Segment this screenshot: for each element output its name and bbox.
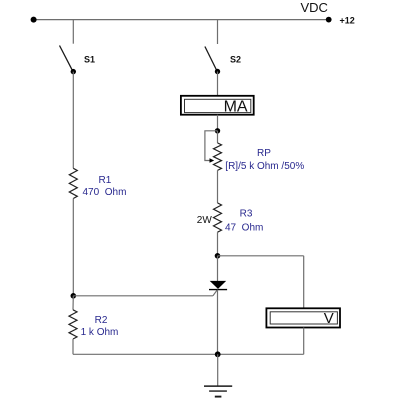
resistor R1 — [69, 168, 77, 198]
resistor R2 — [69, 310, 77, 339]
svg-text:470 Ohm: 470 Ohm — [83, 187, 127, 198]
node pot wiper junction — [215, 128, 220, 133]
wire pot node to RP body — [217, 131, 219, 143]
switch S2 blade — [205, 47, 217, 72]
svg-text:R2: R2 — [95, 315, 108, 326]
resistor R3 — [214, 203, 222, 232]
svg-text:VDC: VDC — [301, 0, 328, 15]
wire R3 to SCR node — [217, 232, 219, 256]
wire middle branch from rail to S2 — [217, 20, 219, 44]
svg-text:RP: RP — [257, 148, 271, 159]
svg-text:+12: +12 — [340, 16, 355, 26]
svg-text:2W: 2W — [197, 215, 213, 226]
wire SCR cathode to bottom rail — [217, 290, 219, 355]
wire voltmeter to bottom rail — [303, 328, 305, 355]
wire milliammeter to pot node — [217, 115, 219, 131]
node SCR anode junction — [215, 253, 221, 259]
svg-text:1 k Ohm: 1 k Ohm — [81, 327, 119, 338]
svg-text:[R]/5 k Ohm /50%: [R]/5 k Ohm /50% — [225, 161, 304, 172]
svg-text:S2: S2 — [230, 55, 241, 65]
svg-text:R3: R3 — [240, 208, 253, 219]
wire top rail VDC — [34, 19, 329, 21]
node S2 bottom contact — [215, 69, 220, 74]
wire gate diagonal to SCR cathode — [213, 290, 218, 296]
meter MA outer box — [181, 96, 254, 115]
svg-text:S1: S1 — [84, 55, 95, 65]
thyristor SCR triangle — [210, 281, 227, 289]
wire junction to right branch — [218, 255, 304, 257]
wire left branch from rail to S1 — [72, 20, 74, 44]
wire right branch down to voltmeter — [303, 256, 305, 308]
wire RP to R3 — [217, 170, 219, 203]
wire gate horizontal — [73, 295, 213, 297]
node left end of VDC rail — [31, 17, 37, 23]
wire S1 to R1 — [72, 72, 74, 169]
switch S1 blade — [60, 46, 73, 72]
svg-text:V: V — [324, 310, 334, 327]
meter V inner box — [270, 312, 337, 324]
wire SCR anode lead — [217, 256, 219, 281]
wire R1 to gate node — [72, 199, 74, 296]
svg-text:47 Ohm: 47 Ohm — [225, 223, 263, 234]
wire ground stem — [217, 354, 219, 386]
node S1 bottom contact — [71, 69, 76, 74]
svg-text:MA: MA — [224, 99, 248, 116]
node ground junction — [215, 351, 221, 357]
potentiometer RP — [214, 143, 222, 171]
svg-text:R1: R1 — [99, 175, 112, 186]
wire bottom rail — [73, 353, 304, 355]
meter V outer box — [266, 308, 340, 327]
potentiometer RP wiper arrow — [210, 158, 215, 163]
wire node A to R2 — [72, 296, 74, 310]
ground — [204, 386, 232, 397]
wire pot wiper hook — [205, 131, 218, 161]
node A junction R1/R2/gate — [71, 293, 77, 299]
thyristor SCR cathode bar — [209, 289, 227, 291]
wire R2 to bottom rail — [72, 339, 74, 354]
node +12 terminal — [326, 17, 332, 23]
meter MA inner box — [185, 99, 251, 112]
wire S2 to milliammeter — [217, 72, 219, 96]
